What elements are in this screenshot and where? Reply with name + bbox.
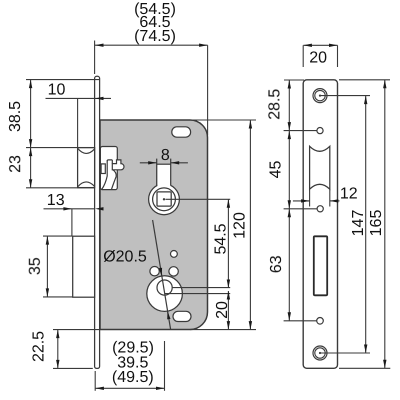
bottom dim right extension (cylinder center) xyxy=(164,341,166,391)
Ø20.5 diameter leader line xyxy=(153,220,171,329)
Ø20.5 leader arrow top xyxy=(159,268,162,276)
top dim right extension (case back extended) xyxy=(207,45,209,135)
latch arm (protruding cam) xyxy=(112,160,124,170)
plate bottom edge extension xyxy=(339,367,390,369)
pin hole 3 extension xyxy=(284,320,317,322)
dim 22.5 extension top (case bottom extended) xyxy=(53,329,100,331)
spindle hub inner circle xyxy=(153,188,176,211)
svg-text:12: 12 xyxy=(340,185,358,202)
bottom dim left extension (faceplate) xyxy=(94,371,96,391)
lock case body (gray) xyxy=(100,120,208,330)
Ø20.5 leader arrow bottom xyxy=(167,311,170,319)
pin hole 2 extension xyxy=(284,208,318,210)
cylinder center extension line xyxy=(165,293,231,295)
dim 20 line (left view) xyxy=(227,291,229,330)
top dim line 64.5 xyxy=(95,44,208,46)
top screw hole inner xyxy=(315,90,325,100)
dim 22.5 extension bottom (faceplate bottom) xyxy=(53,367,93,369)
bottom screw extension line xyxy=(321,352,370,354)
dim 38.5 line xyxy=(30,80,32,148)
svg-text:22.5: 22.5 xyxy=(30,331,47,362)
svg-text:63: 63 xyxy=(268,255,285,273)
dim 35 extension bottom xyxy=(43,296,73,298)
cylinder ear circle left xyxy=(150,267,159,276)
svg-text:20: 20 xyxy=(309,49,327,66)
latch lever left edge xyxy=(102,160,107,189)
latch bolt bottom bevel arc xyxy=(78,182,94,187)
dim 13 extension at deadbolt face xyxy=(71,209,73,236)
cylinder ear circle right xyxy=(169,267,178,276)
cylinder small circle extension line xyxy=(172,287,230,289)
top screw extension line xyxy=(321,95,370,97)
dim 12 extensions xyxy=(309,189,311,206)
svg-text:20: 20 xyxy=(214,301,231,319)
latch bolt top bevel arc xyxy=(78,149,94,154)
dim 38.5 extension bottom (latch top) xyxy=(26,147,94,149)
dim 35 line xyxy=(46,236,48,297)
latch bolt xyxy=(78,148,95,188)
svg-text:147: 147 xyxy=(350,210,367,237)
dim 35 extension top xyxy=(43,235,73,237)
spindle slot cap line xyxy=(157,163,171,165)
svg-text:28.5: 28.5 xyxy=(266,89,283,120)
dim 23 line xyxy=(30,148,32,188)
hub center extension line xyxy=(166,198,231,200)
dim 120 line xyxy=(249,120,251,330)
top pin hole xyxy=(317,128,323,134)
pin hole 1 extension xyxy=(284,130,317,132)
latch lever body right edge xyxy=(112,169,117,189)
svg-text:(49.5): (49.5) xyxy=(112,369,154,386)
faceplate (edge view) xyxy=(95,76,100,368)
small pin hole above cylinder xyxy=(171,251,178,258)
svg-text:13: 13 xyxy=(47,192,65,209)
spindle square hole 8mm xyxy=(157,192,171,206)
svg-text:38.5: 38.5 xyxy=(7,101,24,132)
dim 13 leader line xyxy=(44,208,95,210)
dim 28.5 line xyxy=(288,80,290,131)
dim 20 (plate) extensions xyxy=(302,45,304,67)
bottom dim line 39.5 xyxy=(95,387,164,389)
top screw hole center dot xyxy=(319,95,321,97)
bottom oval slot xyxy=(173,311,191,321)
dim 20 (plate) line xyxy=(303,44,337,46)
spindle hub outer circle xyxy=(149,184,180,215)
latch cavity in case xyxy=(100,147,117,190)
top oval slot xyxy=(172,127,191,137)
dim 10 extension at latch face xyxy=(77,98,79,147)
deadbolt cutout xyxy=(314,236,327,295)
dim 38.5 extension top (faceplate top) xyxy=(26,79,99,81)
cylinder hole Ø20.5 xyxy=(147,276,183,312)
dim 147 line xyxy=(365,96,367,353)
svg-text:(74.5): (74.5) xyxy=(134,28,176,45)
svg-text:23: 23 xyxy=(7,155,24,173)
dim 54.5 line xyxy=(227,199,229,288)
face plate outline xyxy=(303,80,337,369)
bottom screw hole outer xyxy=(313,346,327,360)
dim 22.5 line xyxy=(57,330,59,369)
cylinder inner circle xyxy=(157,280,172,295)
bottom screw hole center dot xyxy=(319,352,321,354)
top screw hole outer xyxy=(313,89,327,103)
latch tail small rect xyxy=(101,164,105,174)
dim 12 left line+arrow xyxy=(293,200,310,202)
dim 12 right line+arrow xyxy=(330,200,340,202)
top dim left extension xyxy=(94,41,96,75)
dim 165 line xyxy=(384,80,386,369)
dim 63 line xyxy=(288,209,290,321)
dim 8 left line+arrow xyxy=(140,162,157,164)
case top edge extension xyxy=(190,119,256,121)
dim 13 arrow at faceplate xyxy=(95,207,104,210)
latch cutout (bobbin shape) xyxy=(310,146,330,189)
bottom screw hole inner xyxy=(315,348,325,358)
spindle slot left edge / ext xyxy=(156,159,158,186)
case bottom edge extension xyxy=(190,329,256,331)
svg-text:165: 165 xyxy=(368,210,385,237)
plate left dim extension top xyxy=(284,79,304,81)
svg-text:54.5: 54.5 xyxy=(212,223,229,254)
latch lever vertical right above arm xyxy=(111,160,113,164)
svg-text:Ø20.5: Ø20.5 xyxy=(103,249,147,266)
hub center dot xyxy=(163,198,165,200)
dim 45 line xyxy=(288,131,290,209)
dim 13 arrow at deadbolt face xyxy=(63,207,72,210)
bottom pin hole xyxy=(317,318,324,325)
middle pin hole xyxy=(317,206,323,212)
plate top edge extension xyxy=(339,79,390,81)
spindle slot band xyxy=(157,164,170,188)
dim 10 arrow at faceplate xyxy=(95,97,104,100)
dim 8 right line+arrow xyxy=(171,162,188,164)
dim 23 extension bottom (latch bottom) xyxy=(26,187,94,189)
svg-text:10: 10 xyxy=(48,82,66,99)
svg-text:120: 120 xyxy=(231,212,248,239)
spindle slot right edge / ext xyxy=(170,159,172,186)
svg-text:45: 45 xyxy=(267,161,284,179)
deadbolt xyxy=(73,236,95,297)
svg-text:8: 8 xyxy=(161,147,170,164)
dim 10 leader line xyxy=(46,97,112,99)
latch lever top edge xyxy=(107,160,112,161)
svg-text:35: 35 xyxy=(27,257,44,275)
